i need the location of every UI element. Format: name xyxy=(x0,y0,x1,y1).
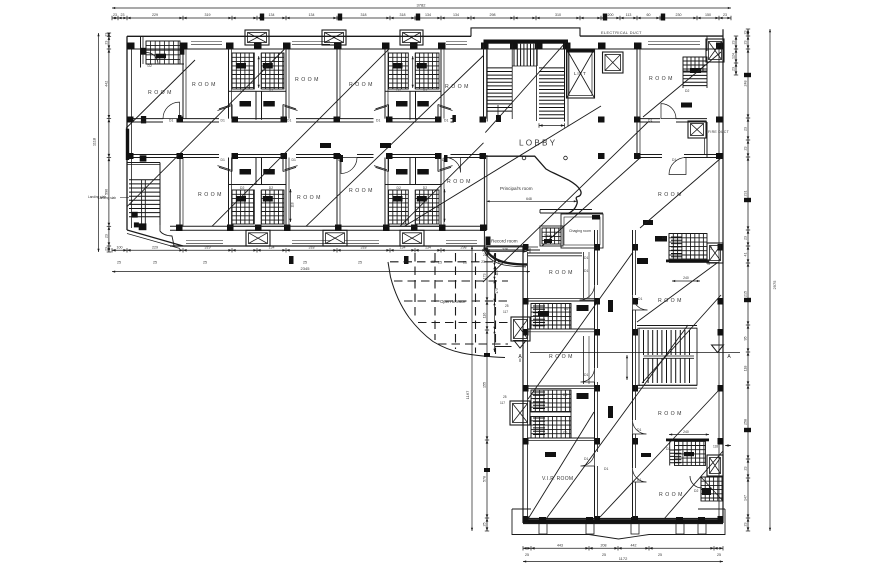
bottom wall of top wing xyxy=(170,245,523,247)
record room dim 278 xyxy=(486,251,526,253)
section line A-A xyxy=(495,346,512,348)
svg-text:25: 25 xyxy=(483,523,487,527)
svg-text:23: 23 xyxy=(744,236,748,240)
left dimension chain xyxy=(108,33,110,252)
shaft bottom 1 xyxy=(246,230,270,246)
right dimension chain xyxy=(747,29,749,531)
open terrace dashed grid xyxy=(390,253,508,354)
stair bottom dim xyxy=(539,125,565,127)
record room xyxy=(483,230,485,250)
svg-text:23: 23 xyxy=(104,234,108,238)
svg-text:D1: D1 xyxy=(292,158,296,162)
dim 648 principal's room xyxy=(486,200,577,202)
svg-text:Record room: Record room xyxy=(491,239,518,244)
svg-text:D2: D2 xyxy=(269,89,273,93)
svg-text:D2: D2 xyxy=(423,89,427,93)
svg-text:118: 118 xyxy=(744,366,748,372)
door D1 east corridor xyxy=(661,104,676,119)
shaft top-right corner xyxy=(706,39,724,62)
svg-text:240: 240 xyxy=(683,430,689,434)
west wall shaft 1 xyxy=(511,317,530,341)
svg-text:D2: D2 xyxy=(666,447,670,451)
furniture marks rooms xyxy=(320,143,331,148)
bathroom pair 3 bottom row xyxy=(229,185,287,227)
right outer wall xyxy=(722,29,724,523)
svg-text:230: 230 xyxy=(676,13,682,17)
fire duct shaft xyxy=(688,121,706,138)
svg-text:278: 278 xyxy=(502,247,508,251)
svg-text:231: 231 xyxy=(744,191,748,197)
svg-text:R O O M: R O O M xyxy=(192,82,216,88)
svg-text:25: 25 xyxy=(358,261,362,265)
terrace boundary xyxy=(388,262,505,358)
svg-text:23: 23 xyxy=(744,41,748,45)
svg-text:D1: D1 xyxy=(221,118,225,122)
bathroom B pair right wing xyxy=(531,390,571,412)
windows top wall xyxy=(191,41,222,43)
top outer wall xyxy=(127,35,471,37)
svg-text:LIFT: LIFT xyxy=(574,71,587,76)
bottom overall dimension 2345 xyxy=(112,271,530,273)
svg-text:23: 23 xyxy=(744,127,748,131)
svg-text:R O O M: R O O M xyxy=(295,77,319,83)
wardrobe room A xyxy=(583,252,585,298)
svg-text:310: 310 xyxy=(555,13,561,17)
svg-text:D1: D1 xyxy=(672,158,676,162)
electrical duct step xyxy=(471,28,580,37)
diagonal in top-left room xyxy=(126,60,195,128)
svg-text:V.I.P. ROOM: V.I.P. ROOM xyxy=(542,476,573,482)
svg-text:648: 648 xyxy=(526,197,532,201)
svg-text:Landing slab: Landing slab xyxy=(98,196,116,200)
diagonals lobby xyxy=(405,106,602,226)
svg-text:25: 25 xyxy=(153,261,157,265)
svg-text:23: 23 xyxy=(744,147,748,151)
corridor upper wall east xyxy=(637,118,660,120)
svg-text:D1: D1 xyxy=(584,457,588,461)
svg-text:2975: 2975 xyxy=(772,280,777,290)
svg-text:23: 23 xyxy=(744,523,748,527)
svg-text:D2: D2 xyxy=(423,186,427,190)
shaft top 3 xyxy=(400,30,423,45)
svg-text:R O O M: R O O M xyxy=(447,179,471,185)
right small dim 124 xyxy=(735,36,737,75)
svg-text:R O O M: R O O M xyxy=(297,195,321,201)
record room chamfer xyxy=(485,248,527,265)
svg-text:25: 25 xyxy=(203,261,207,265)
svg-text:134: 134 xyxy=(425,13,431,17)
east stair top wall xyxy=(637,325,697,327)
svg-text:116: 116 xyxy=(495,270,499,275)
svg-text:23: 23 xyxy=(113,13,117,17)
top-left corner bathroom xyxy=(140,36,142,67)
svg-text:23: 23 xyxy=(121,13,125,17)
east stair bottom wall xyxy=(637,384,697,386)
dim arrow 118 near pair 3 xyxy=(290,189,292,222)
svg-text:318: 318 xyxy=(400,13,406,17)
svg-text:D1: D1 xyxy=(169,118,173,122)
svg-text:25: 25 xyxy=(658,553,662,557)
shaft beside lift xyxy=(603,52,624,73)
svg-text:1167: 1167 xyxy=(465,390,470,399)
furniture rects right wing xyxy=(608,300,613,312)
svg-text:D2: D2 xyxy=(397,89,401,93)
main staircase left flight xyxy=(487,68,512,111)
svg-text:D2: D2 xyxy=(685,89,689,93)
svg-text:229: 229 xyxy=(152,246,158,250)
columns on bottom wall xyxy=(176,225,183,232)
top dimension chain xyxy=(112,17,731,19)
terrace small dims xyxy=(494,253,496,266)
svg-text:578: 578 xyxy=(483,476,487,482)
west wall shaft 2 xyxy=(510,401,530,425)
svg-text:D1: D1 xyxy=(376,118,380,122)
right wing partition C xyxy=(528,385,595,387)
svg-text:25: 25 xyxy=(303,261,307,265)
shaft bottom 2 xyxy=(323,230,347,246)
svg-text:208: 208 xyxy=(601,544,607,548)
right wing partition D xyxy=(528,437,595,439)
svg-text:25: 25 xyxy=(505,304,509,308)
svg-text:23: 23 xyxy=(732,67,736,71)
plinth tabs xyxy=(539,524,547,535)
right wing east column bathroom top xyxy=(669,234,707,260)
svg-text:D1: D1 xyxy=(444,118,448,122)
lift xyxy=(567,49,595,98)
wall east of fire duct xyxy=(706,122,708,157)
lobby center mark xyxy=(522,156,526,160)
doors D1 bottom row xyxy=(341,158,357,174)
svg-text:1118: 1118 xyxy=(92,137,97,146)
svg-text:147: 147 xyxy=(744,495,748,501)
lobby west wall xyxy=(483,155,485,230)
svg-text:D1: D1 xyxy=(287,118,291,122)
shaft top 1 xyxy=(245,30,269,45)
svg-text:240: 240 xyxy=(683,276,689,280)
svg-text:60: 60 xyxy=(647,13,651,17)
stair west xyxy=(140,155,147,161)
svg-text:R O O M: R O O M xyxy=(549,270,573,276)
svg-text:R O O M: R O O M xyxy=(198,192,222,198)
svg-text:25: 25 xyxy=(525,553,529,557)
principal's room wavy partition xyxy=(485,156,581,213)
svg-text:LOBBY: LOBBY xyxy=(519,139,557,148)
svg-text:25: 25 xyxy=(438,261,442,265)
bathroom A right wing xyxy=(531,304,571,330)
section marker A east xyxy=(712,345,724,352)
main staircase xyxy=(483,44,485,122)
svg-text:D2: D2 xyxy=(563,393,567,397)
svg-text:215: 215 xyxy=(744,291,748,297)
svg-text:118: 118 xyxy=(291,202,295,207)
svg-text:116: 116 xyxy=(483,313,487,319)
stair west exit jog xyxy=(160,225,174,246)
svg-text:113: 113 xyxy=(626,13,632,17)
svg-text:D1: D1 xyxy=(584,256,588,260)
partition walls bottom row xyxy=(179,158,181,227)
room A north wall xyxy=(528,252,583,254)
right wing inner chain xyxy=(486,246,488,531)
main staircase right flight xyxy=(539,68,565,118)
wall right of lift xyxy=(636,49,638,119)
svg-text:ELECTRICAL DUCT: ELECTRICAL DUCT xyxy=(601,31,642,35)
doors D1 top row xyxy=(163,102,180,119)
shaft top 2 xyxy=(322,30,346,45)
svg-text:117: 117 xyxy=(500,401,505,405)
svg-text:41: 41 xyxy=(744,253,748,257)
main staircase upper landing xyxy=(514,44,537,66)
svg-text:443: 443 xyxy=(557,544,563,548)
bathroom pair 2 top row xyxy=(385,49,441,91)
svg-text:200: 200 xyxy=(608,13,614,17)
svg-text:134: 134 xyxy=(269,13,275,17)
svg-text:134: 134 xyxy=(453,13,459,17)
svg-text:R O O M: R O O M xyxy=(659,492,683,498)
svg-text:D1: D1 xyxy=(638,297,642,301)
svg-text:23: 23 xyxy=(104,41,108,45)
east wall shaft 1 xyxy=(707,243,723,263)
svg-text:Toilet: Toilet xyxy=(544,234,552,238)
dim 240 east top xyxy=(672,280,700,282)
dim 240 east bottom xyxy=(669,434,709,436)
svg-text:D1: D1 xyxy=(221,158,225,162)
svg-text:25: 25 xyxy=(463,261,467,265)
svg-text:D2: D2 xyxy=(240,186,244,190)
svg-text:D2: D2 xyxy=(564,307,568,311)
svg-text:D2: D2 xyxy=(148,64,152,68)
svg-text:D1: D1 xyxy=(604,467,608,471)
right wing partition A xyxy=(528,300,595,302)
right wing partition B xyxy=(528,328,595,330)
wardrobe room B xyxy=(583,336,585,384)
svg-text:117: 117 xyxy=(503,310,508,314)
shaft bottom 3 xyxy=(400,230,424,246)
right overall dimension 2975 xyxy=(769,29,771,531)
svg-text:D2: D2 xyxy=(269,186,273,190)
svg-text:100: 100 xyxy=(117,246,123,250)
svg-text:318: 318 xyxy=(361,13,367,17)
svg-text:173: 173 xyxy=(495,288,499,294)
svg-text:R O O M: R O O M xyxy=(649,76,673,82)
bathroom pair 1 top row xyxy=(229,49,287,91)
wall stub right end top xyxy=(706,36,708,51)
svg-text:95: 95 xyxy=(744,337,748,341)
svg-text:23: 23 xyxy=(732,41,736,45)
svg-text:D2: D2 xyxy=(563,431,567,435)
svg-text:25: 25 xyxy=(717,553,721,557)
svg-text:155: 155 xyxy=(483,382,487,388)
svg-text:23: 23 xyxy=(744,31,748,35)
right wing left outer wall xyxy=(522,246,524,523)
columns on top wall xyxy=(127,43,135,50)
svg-text:Chaging room: Chaging room xyxy=(569,229,591,233)
dim arrow 118 near pair 4 xyxy=(444,189,446,222)
svg-text:23: 23 xyxy=(104,247,108,251)
right wing inner dim chain 1167 xyxy=(471,246,473,531)
columns right wing bottom wall xyxy=(539,517,546,524)
svg-text:R O O M: R O O M xyxy=(549,354,573,360)
svg-text:23: 23 xyxy=(723,13,727,17)
svg-text:D1: D1 xyxy=(584,373,588,377)
svg-text:25: 25 xyxy=(602,553,606,557)
svg-text:R O O M: R O O M xyxy=(349,188,373,194)
columns on corridor walls xyxy=(127,117,134,123)
windows bottom wall xyxy=(186,240,223,242)
svg-text:25: 25 xyxy=(503,395,507,399)
svg-text:150: 150 xyxy=(705,13,711,17)
svg-text:23: 23 xyxy=(431,260,435,264)
svg-text:23: 23 xyxy=(104,33,108,37)
svg-text:25: 25 xyxy=(483,253,487,257)
svg-text:Principal's room: Principal's room xyxy=(500,186,533,191)
east stair xyxy=(639,328,697,385)
diagonal lines top wing xyxy=(127,49,285,207)
svg-text:298: 298 xyxy=(490,13,496,17)
bottom dimension chain of top wing xyxy=(112,249,530,251)
lobby east wall xyxy=(636,122,638,155)
svg-text:229: 229 xyxy=(152,13,158,17)
svg-text:Open terrace: Open terrace xyxy=(440,299,466,304)
bathroom pair 4 bottom row xyxy=(385,185,441,227)
svg-text:596: 596 xyxy=(104,189,108,195)
right wing corridor west wall xyxy=(594,230,596,285)
toilet xyxy=(540,226,563,246)
svg-text:D2: D2 xyxy=(662,236,666,240)
lift shaft black band xyxy=(566,49,595,53)
svg-text:124: 124 xyxy=(732,53,736,59)
svg-text:1172: 1172 xyxy=(619,556,628,561)
corridor lower wall xyxy=(127,154,219,156)
right wing doors D1 xyxy=(580,285,595,300)
svg-text:25: 25 xyxy=(117,261,121,265)
left overall dimension 1118 xyxy=(98,33,100,252)
svg-text:D2: D2 xyxy=(694,489,698,493)
svg-text:118: 118 xyxy=(713,445,718,449)
svg-text:258: 258 xyxy=(744,419,748,425)
svg-text:442: 442 xyxy=(631,544,637,548)
svg-text:23: 23 xyxy=(744,467,748,471)
diagonals right wing xyxy=(528,252,633,399)
door leaf marks xyxy=(178,115,182,122)
east bathroom bottom xyxy=(675,441,706,465)
svg-text:442: 442 xyxy=(104,81,108,87)
east wall shaft 2 xyxy=(707,455,723,476)
right wing bottom wall xyxy=(523,522,723,524)
svg-text:D1: D1 xyxy=(584,269,588,273)
svg-text:134: 134 xyxy=(309,13,315,17)
columns right wing xyxy=(523,244,529,251)
svg-text:3782: 3782 xyxy=(417,3,427,8)
svg-text:23: 23 xyxy=(481,260,485,264)
svg-text:R O O M: R O O M xyxy=(658,298,682,304)
right wing corridor east wall xyxy=(632,230,634,295)
svg-text:D1: D1 xyxy=(637,428,641,432)
svg-text:FIRE DUCT: FIRE DUCT xyxy=(708,130,730,134)
corridor west end wall fill xyxy=(126,129,129,160)
svg-text:D1: D1 xyxy=(648,119,652,123)
svg-text:D1: D1 xyxy=(637,478,641,482)
top overall dimension 3782 xyxy=(112,7,731,9)
bottom-right dimension chain xyxy=(523,547,723,549)
svg-text:248: 248 xyxy=(744,81,748,87)
left outer wall xyxy=(126,36,128,230)
top-right corner bathroom xyxy=(683,57,707,71)
plinth outline with notch xyxy=(512,509,725,539)
corridor lower wall east xyxy=(637,154,662,156)
bottom-left chamfer wall xyxy=(127,230,183,246)
corridor upper wall xyxy=(127,118,163,120)
east corner bathroom xyxy=(701,477,723,501)
stair arrow xyxy=(497,105,499,118)
svg-text:R O O M: R O O M xyxy=(658,411,682,417)
partition walls top row xyxy=(182,49,184,119)
svg-text:D2: D2 xyxy=(397,186,401,190)
svg-text:319: 319 xyxy=(205,13,211,17)
section marker A west xyxy=(514,341,526,349)
svg-text:118: 118 xyxy=(709,245,713,250)
main staircase top wall black band xyxy=(484,40,569,44)
counter line xyxy=(540,209,592,211)
record room door mark xyxy=(486,237,491,246)
diagonal in stair hall xyxy=(485,40,567,132)
changing room xyxy=(561,214,603,248)
bottom-right overall dimension 1172 xyxy=(523,561,723,563)
svg-text:2345: 2345 xyxy=(301,266,311,271)
